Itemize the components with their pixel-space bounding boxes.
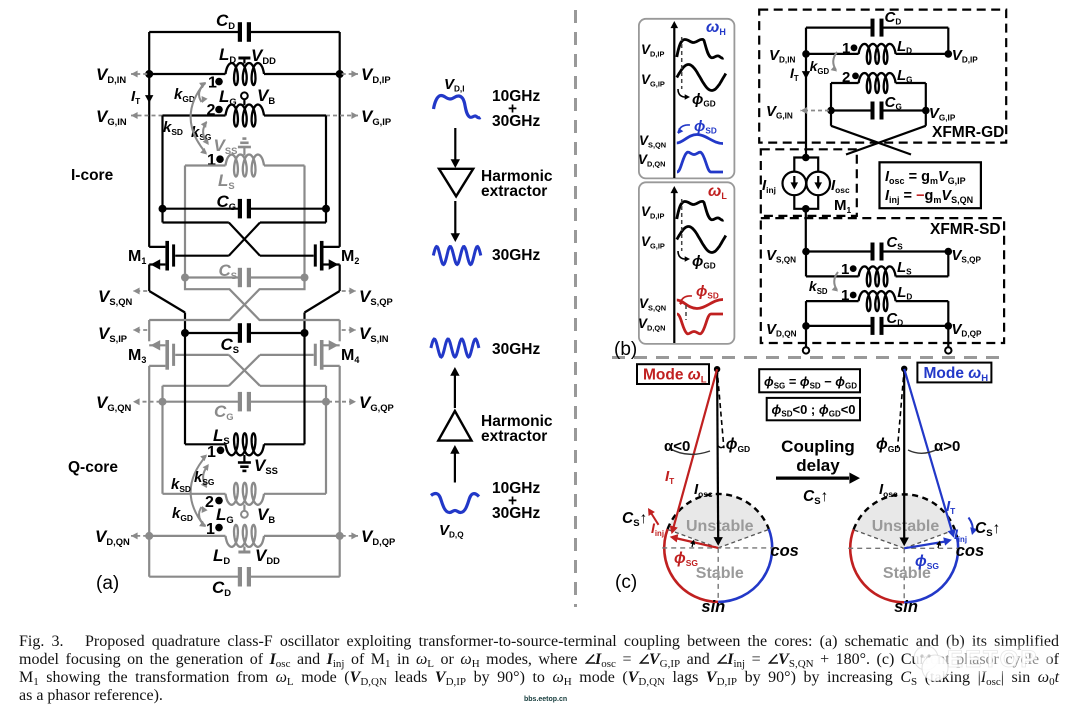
- svg-text:VD,QN: VD,QN: [638, 152, 666, 168]
- svg-text:VS,QP: VS,QP: [359, 287, 393, 307]
- svg-text:ϕSG: ϕSG: [915, 553, 939, 571]
- svg-text:VG,IP: VG,IP: [361, 107, 391, 127]
- waveform panel omega_H box: [639, 19, 735, 179]
- svg-text:ϕSD: ϕSD: [696, 283, 719, 301]
- svg-text:CS↑: CS↑: [803, 488, 828, 507]
- sector radii dashed (L): [668, 529, 719, 548]
- wire: I-core top rail with C_D: [149, 31, 240, 33]
- C_S down arrow blue (R): [969, 518, 973, 533]
- node arrow V_G,QN: [133, 401, 161, 403]
- capacitor C_G (I-core): [238, 199, 242, 219]
- svg-text:LS: LS: [218, 171, 235, 191]
- svg-text:1: 1: [842, 40, 850, 57]
- svg-text:Iosc: Iosc: [831, 177, 850, 195]
- wire: I-core left rail: [148, 32, 150, 247]
- junction dot V_D,IN (b): [802, 50, 810, 58]
- junction dot V_D,QN: [145, 532, 153, 540]
- svg-text:CD: CD: [885, 9, 902, 27]
- node arrow V_S,IN: [342, 329, 356, 331]
- wire: L_D to V_D,QN (b): [806, 300, 859, 302]
- svg-text:CS↑: CS↑: [622, 510, 647, 529]
- wire: M1 to V_S,QN: [805, 209, 807, 252]
- svg-text:LS: LS: [897, 259, 912, 277]
- terminal V_D,QP (b): [947, 326, 949, 347]
- waveform V_G,IP (wfL): [677, 227, 726, 253]
- junction dots C_G (b): [827, 107, 835, 115]
- wire: C_S line (I-core, gray): [185, 276, 240, 278]
- svg-text:extractor: extractor: [481, 183, 547, 200]
- svg-text:Mode ωH: Mode ωH: [924, 365, 989, 384]
- current I_T arrow: [145, 95, 153, 103]
- inductor L_D (I-core): [226, 63, 265, 85]
- svg-text:Q-core: Q-core: [68, 459, 118, 476]
- wire: L_S box (I-core): [185, 164, 226, 166]
- wire: Q-core left rail: [148, 366, 150, 577]
- svg-text:30GHz: 30GHz: [492, 341, 540, 358]
- formula box: [880, 162, 981, 208]
- svg-text:Iinj: Iinj: [954, 526, 967, 544]
- harmonic extractor triangle (I): [439, 169, 473, 197]
- svg-text:VS,QN: VS,QN: [98, 287, 132, 307]
- waveform V_G,IP (wfH): [677, 65, 726, 91]
- svg-text:VG,IP: VG,IP: [641, 72, 665, 88]
- junction dot V_S,QP (b): [945, 248, 953, 256]
- wire: current source bracket top: [794, 158, 818, 172]
- svg-text:extractor: extractor: [481, 428, 547, 445]
- formula box phi negative: [767, 398, 860, 420]
- capacitor C_D (b-SD): [871, 317, 875, 335]
- node arrow V_G,IN (b): [801, 110, 830, 112]
- svg-text:CD: CD: [212, 578, 231, 598]
- wire: Q-core outer top-right: [339, 320, 341, 341]
- wire: Q gate box: [163, 385, 229, 387]
- svg-text:VD,QP: VD,QP: [951, 321, 982, 339]
- wire: current source bracket bottom: [794, 195, 818, 209]
- svg-text:CS: CS: [886, 234, 903, 252]
- junction dot V_D,QN (b): [802, 322, 810, 330]
- svg-text:VD,I: VD,I: [444, 76, 464, 94]
- bias V_B terminal (Q-core): [241, 511, 248, 518]
- junction dots C_G Q: [159, 398, 167, 406]
- ground V_SS (I-core): [243, 147, 245, 156]
- svg-text:30GHz: 30GHz: [492, 505, 540, 522]
- coupling arc k_SD (I-core): [191, 83, 206, 153]
- phase dashed (wfL): [681, 199, 683, 251]
- I_osc arrow (R): [903, 369, 905, 541]
- node arrow V_D,QP: [342, 535, 358, 537]
- axis (omega_L panel): [673, 191, 675, 343]
- svg-text:VD,QN: VD,QN: [95, 527, 130, 547]
- svg-text:ϕSD<0 ; ϕGD<0: ϕSD<0 ; ϕGD<0: [772, 402, 856, 419]
- capacitor C_D (I-core): [238, 22, 242, 42]
- sector radii dashed (R): [854, 530, 905, 549]
- svg-text:(c): (c): [615, 572, 637, 593]
- svg-text:M4: M4: [341, 347, 359, 365]
- capacitor C_G (b): [871, 102, 875, 120]
- svg-text:M1: M1: [128, 248, 146, 266]
- node arrow V_G,IN: [131, 115, 163, 117]
- svg-text:ωH: ωH: [706, 19, 726, 37]
- phi_GD dashed ref (R): [898, 369, 905, 448]
- svg-text:Coupling: Coupling: [781, 437, 855, 456]
- I_T arrow blue (R): [904, 369, 953, 535]
- current source I_osc: [806, 172, 830, 196]
- waveform V_D,IP (wfL): [677, 201, 724, 220]
- svg-text:VS,IP: VS,IP: [98, 324, 127, 344]
- svg-text:VG,IN: VG,IN: [96, 107, 127, 127]
- svg-text:1: 1: [208, 75, 217, 92]
- junction dot V_D,QP: [336, 532, 344, 540]
- phase dashed (wfH): [681, 37, 683, 89]
- svg-text:VS,QN: VS,QN: [639, 133, 666, 149]
- unstable sector (L): [668, 494, 769, 548]
- junction dots C_S gray: [181, 274, 189, 282]
- svg-text:VDD: VDD: [251, 46, 276, 66]
- mode omega_H box: [917, 363, 991, 383]
- junction dot V_S,QN (b): [802, 248, 810, 256]
- cross-coupling wires (Q-core): [229, 355, 260, 386]
- svg-text:LG: LG: [216, 505, 234, 525]
- wire: Q-core right rail: [339, 366, 341, 577]
- svg-text:CG: CG: [885, 94, 902, 112]
- wire: V_S,QN line (b): [806, 250, 873, 252]
- svg-text:kSD: kSD: [809, 278, 828, 296]
- wire: V_G line (I-core): [163, 114, 226, 116]
- svg-text:VB: VB: [257, 86, 275, 106]
- svg-text:α>0: α>0: [934, 438, 960, 455]
- wire: I-core right rail: [339, 32, 341, 247]
- cross-coupling wires (I-core): [229, 223, 260, 256]
- junction dot V_D,IN: [145, 70, 153, 78]
- svg-text:CG: CG: [217, 192, 237, 212]
- node arrow V_D,QN: [131, 535, 147, 537]
- wire: C_G line (Q-core, gray): [163, 401, 240, 403]
- svg-text:VG,IP: VG,IP: [929, 105, 956, 123]
- wire: b top rail with C_D: [806, 27, 873, 29]
- wire: M2 source to C_S: [339, 265, 341, 292]
- svg-text:Stable: Stable: [696, 565, 744, 582]
- phi_GD arc (L): [718, 446, 723, 448]
- alpha arc (R): [908, 449, 938, 453]
- svg-text:M1: M1: [834, 197, 852, 215]
- junction dots C_G (I-core): [159, 205, 167, 213]
- svg-text:IT: IT: [946, 498, 956, 516]
- svg-text:CS↑: CS↑: [975, 520, 1000, 539]
- pin 2 dot L_G (I-core): [215, 106, 223, 114]
- wire: inner gate box (I-core): [161, 116, 163, 223]
- inductor L_G (Q-core): [226, 483, 265, 505]
- XFMR-GD dashed box: [759, 10, 1006, 143]
- capacitor C_D (b-GD): [871, 19, 875, 37]
- inductor L_G (I-core): [226, 105, 265, 127]
- pin 2 dot L_G (b): [852, 73, 859, 80]
- node arrow V_G,IP: [326, 115, 358, 117]
- axis (omega_H panel): [673, 26, 675, 178]
- transistor M2: [320, 241, 324, 271]
- svg-text:VD,IN: VD,IN: [769, 47, 795, 65]
- wire: V_D,QN line (b): [806, 325, 873, 327]
- svg-text:XFMR-GD: XFMR-GD: [932, 124, 1004, 141]
- svg-text:VG,QN: VG,QN: [96, 393, 132, 413]
- svg-text:ϕGD: ϕGD: [876, 436, 901, 454]
- svg-text:30GHz: 30GHz: [492, 247, 540, 264]
- svg-text:VSS: VSS: [214, 136, 238, 156]
- axis dashed horizontal (R): [848, 547, 960, 549]
- svg-text:I-core: I-core: [71, 167, 114, 184]
- coupling arc k_GD (I-core): [199, 83, 205, 102]
- node arrow V_G,QP: [328, 401, 356, 403]
- axis dashed vertical (L): [717, 548, 719, 602]
- waveform 30GHz (Q): [431, 339, 479, 357]
- svg-text:LG: LG: [219, 87, 237, 107]
- svg-text:ωL: ωL: [708, 183, 727, 201]
- waveform V_D,IP (wfH): [677, 39, 724, 58]
- svg-text:VD,IP: VD,IP: [361, 65, 391, 85]
- svg-text:ϕSG: ϕSG: [674, 550, 698, 568]
- svg-text:CS: CS: [219, 261, 238, 281]
- unstable sector (R): [854, 494, 955, 548]
- svg-text:ϕGD: ϕGD: [726, 436, 751, 454]
- svg-text:VD,QN: VD,QN: [638, 316, 666, 332]
- phasor origin dot (L): [714, 366, 720, 372]
- svg-text:cos: cos: [956, 542, 984, 560]
- waveform panel omega_L box: [639, 182, 735, 344]
- node arrow V_S,QN: [133, 290, 147, 292]
- svg-text:Mode ωL: Mode ωL: [643, 367, 707, 386]
- svg-text:Iinj: Iinj: [762, 177, 776, 195]
- svg-text:1: 1: [207, 444, 216, 461]
- svg-text:Iosc = gmVG,IP: Iosc = gmVG,IP: [885, 169, 966, 186]
- svg-text:ϕGD: ϕGD: [692, 91, 716, 109]
- waveform V_D,QN (wfL): [677, 314, 723, 334]
- phi_GD dashed ref (L): [717, 369, 724, 448]
- C_S up arrow red (L): [650, 511, 659, 525]
- svg-text:VSS: VSS: [254, 456, 278, 476]
- waveform V_S,QN (wfH): [677, 135, 723, 144]
- svg-text:kSD: kSD: [171, 476, 191, 494]
- divider vertical dashed: [574, 10, 577, 607]
- ground V_SS (Q-core): [243, 455, 245, 462]
- I_osc arrow (L): [717, 369, 718, 540]
- wire: b right vertical: [947, 28, 949, 54]
- wire: V_D,QN drain line: [149, 535, 225, 537]
- svg-text:α<0: α<0: [664, 438, 690, 455]
- svg-text:cos: cos: [770, 542, 798, 560]
- axis dashed vertical (R): [903, 548, 905, 602]
- inductor L_S (I-core): [226, 155, 265, 177]
- harmonic extractor triangle (Q): [438, 411, 471, 441]
- wire: M1 source to C_S: [148, 265, 150, 292]
- svg-text:VG,IN: VG,IN: [766, 103, 793, 121]
- svg-text:M2: M2: [341, 248, 359, 266]
- junction dot V_D,IP: [336, 70, 344, 78]
- node arrow V_D,IP: [342, 73, 358, 75]
- M1 model dashed box: [761, 149, 857, 216]
- svg-text:kGD: kGD: [174, 86, 195, 104]
- svg-text:CD: CD: [886, 310, 903, 328]
- pin 1 dot L_D (Q-core): [215, 524, 223, 532]
- svg-text:CD: CD: [216, 11, 235, 31]
- svg-text:VDD: VDD: [255, 546, 280, 566]
- svg-text:VS,QN: VS,QN: [766, 247, 796, 265]
- coupling arc k_GD (b): [833, 52, 837, 70]
- svg-text:ϕGD: ϕGD: [692, 253, 716, 271]
- arrow to extractor (Q): [454, 373, 456, 408]
- junction dot V_D,QP (b): [945, 322, 953, 330]
- wire: L_S loop (b): [805, 252, 807, 277]
- I_inj arrow blue (R): [904, 541, 948, 548]
- mode omega_L box: [637, 364, 709, 384]
- current source I_inj: [783, 172, 807, 196]
- waveform V_D,QN (wfH): [677, 152, 723, 172]
- node arrow V_D,IN: [131, 73, 147, 75]
- svg-text:Unstable: Unstable: [872, 518, 940, 535]
- inductor L_S (Q-core): [226, 433, 265, 455]
- capacitor C_S (black): [238, 323, 242, 343]
- I_T arrow red (L): [673, 369, 718, 530]
- node arrow V_S,QP: [342, 290, 356, 292]
- svg-text:LD: LD: [213, 546, 230, 566]
- svg-text:(a): (a): [96, 573, 119, 594]
- capacitor C_D (Q-core): [238, 567, 242, 587]
- svg-text:sin: sin: [701, 598, 725, 615]
- divider horizontal dashed: [612, 356, 1005, 359]
- svg-text:30GHz: 30GHz: [492, 113, 540, 130]
- transistor M1: [165, 241, 169, 271]
- power V_DD tap (I-core): [243, 58, 245, 64]
- svg-text:VD,IP: VD,IP: [952, 47, 978, 65]
- svg-text:LD: LD: [897, 284, 912, 302]
- pin 1 dot L_D (b-SD): [850, 292, 857, 299]
- svg-text:M3: M3: [128, 347, 146, 365]
- coupling arc k_SG (Q-core): [203, 466, 208, 488]
- svg-text:sin: sin: [894, 598, 918, 615]
- svg-text:Iosc: Iosc: [879, 481, 898, 499]
- pin 1 dot L_D (I-core): [215, 78, 223, 86]
- circle arc red (R): [850, 530, 904, 603]
- phase arrow GD (wfH): [678, 89, 688, 97]
- phi_SG tick arrow (L): [692, 541, 694, 547]
- circle arc red (L): [664, 529, 718, 602]
- current I_T arrow (b): [802, 71, 810, 79]
- phasor origin dot (R): [901, 366, 907, 372]
- svg-text:1: 1: [841, 261, 849, 278]
- svg-text:IT: IT: [665, 468, 675, 486]
- svg-text:delay: delay: [796, 456, 840, 475]
- arrow from extractor (I): [454, 201, 456, 236]
- waveform V_D,Q (classF): [431, 494, 479, 513]
- arrow to extractor (I): [454, 128, 456, 162]
- bias V_B terminal (I-core): [241, 92, 248, 99]
- wire: C_G line (I-core): [163, 208, 240, 210]
- circle arc blue (R): [904, 537, 958, 602]
- I_inj arrow red (L): [673, 538, 718, 548]
- inductor L_D (Q-core): [226, 525, 265, 547]
- coupling delay arrow: [776, 477, 849, 480]
- svg-text:VD,IN: VD,IN: [96, 65, 126, 85]
- svg-text:ϕSD: ϕSD: [694, 118, 717, 136]
- circle arc dashed top (L): [668, 494, 769, 529]
- svg-text:2: 2: [205, 494, 214, 511]
- coupling arc k_SG (I-core): [203, 122, 208, 144]
- capacitor C_G (Q-core gray): [238, 392, 242, 412]
- svg-text:CS: CS: [221, 335, 240, 355]
- svg-text:IT: IT: [790, 65, 799, 83]
- transistor M3: [165, 340, 169, 370]
- inductor L_D (b-SD): [859, 291, 896, 311]
- coupling arc k_SD (Q-core): [191, 456, 206, 526]
- node arrow V_S,IP: [133, 329, 147, 331]
- circle arc blue (L): [718, 529, 772, 602]
- wire: L_G loop (b): [831, 82, 859, 84]
- svg-text:VD,QN: VD,QN: [766, 321, 797, 339]
- waveform 30GHz (I): [433, 247, 481, 265]
- wire: C_G line (b): [831, 109, 873, 111]
- svg-text:VS,IN: VS,IN: [359, 324, 389, 344]
- wire: gray cross couple right: [149, 278, 304, 321]
- inductor L_S (b-SD): [859, 266, 896, 286]
- capacitor C_S (b): [871, 243, 875, 261]
- coupling arc k_GD (Q-core): [199, 507, 205, 526]
- axis dashed horizontal (L): [662, 547, 774, 549]
- wire: Q-core outer top-left: [148, 320, 150, 341]
- phase arrow SD (wfL): [680, 296, 692, 304]
- wire: Q-core bottom rail with C_D: [149, 576, 240, 578]
- svg-text:kGD: kGD: [172, 505, 193, 523]
- phase arrow GD (wfL): [678, 251, 688, 259]
- svg-text:Unstable: Unstable: [686, 518, 754, 535]
- phase dashed 2 (wfL): [685, 305, 687, 320]
- inductor L_G (b-GD): [859, 73, 896, 93]
- svg-text:Iosc: Iosc: [694, 481, 713, 499]
- pin 1 dot L_D (b): [851, 44, 858, 51]
- svg-text:VB: VB: [257, 505, 275, 525]
- alpha arc (L): [669, 448, 710, 454]
- wire: L_S box (Q-core black): [184, 333, 186, 444]
- waveform V_S,QN (wfL): [677, 300, 723, 309]
- svg-text:VS,QN: VS,QN: [639, 296, 666, 312]
- svg-text:XFMR-SD: XFMR-SD: [930, 221, 1001, 238]
- phi_SG tick arrow (R): [938, 542, 940, 548]
- pin 1 dot L_S (Q-core): [217, 447, 225, 455]
- circle arc dashed top (R): [854, 494, 957, 537]
- pin 2 dot L_G (Q-core): [215, 497, 223, 505]
- svg-text:LD: LD: [897, 38, 912, 56]
- XFMR-SD dashed box: [761, 218, 1004, 343]
- svg-text:Iinj = −gmVS,QN: Iinj = −gmVS,QN: [885, 188, 973, 205]
- terminal V_D,QN (b): [805, 326, 807, 347]
- svg-text:VG,QP: VG,QP: [359, 393, 394, 413]
- wire: gray cross couple left: [185, 278, 340, 321]
- svg-text:kGD: kGD: [810, 58, 830, 76]
- svg-text:VD,Q: VD,Q: [439, 522, 464, 540]
- pin 1 dot L_S (I-core): [216, 155, 224, 163]
- power V_DD tap (Q-core): [243, 547, 245, 553]
- junction dots C_S black: [181, 329, 189, 337]
- svg-text:VG,IP: VG,IP: [641, 234, 665, 250]
- capacitor C_S (gray): [238, 268, 242, 287]
- svg-text:(b): (b): [614, 339, 637, 360]
- svg-text:IT: IT: [131, 88, 141, 106]
- wire: xfmr cross (b): [830, 111, 832, 126]
- svg-text:VD,IP: VD,IP: [641, 204, 664, 220]
- svg-text:LD: LD: [219, 45, 236, 65]
- junction dot V_D,IP (b): [945, 50, 953, 58]
- wire: V_D,IN line (b): [806, 53, 859, 55]
- svg-text:VD,QP: VD,QP: [361, 527, 395, 547]
- wire: C_S line (black): [185, 332, 240, 334]
- coupling arc k_SD (b): [834, 272, 838, 290]
